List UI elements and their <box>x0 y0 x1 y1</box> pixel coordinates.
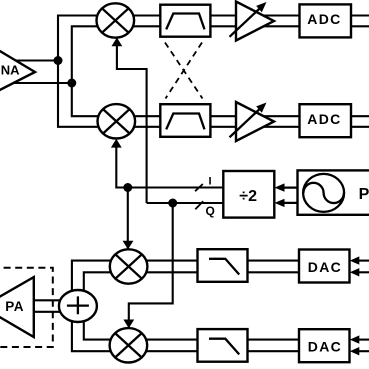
mixer M4 <box>110 328 148 362</box>
amplifier LNA (cut at left edge) <box>0 44 35 96</box>
wire PLL to divider lower <box>281 202 298 204</box>
amplifier A3 VGA <box>236 102 274 141</box>
svg-text:I: I <box>209 175 212 187</box>
filter F4 lowpass box <box>198 329 248 362</box>
arrowhead LO into mixer M4 <box>123 320 134 329</box>
dashed box around PA <box>0 268 53 347</box>
filter F3 lowpass symbol <box>209 259 239 275</box>
svg-text:P: P <box>359 186 369 203</box>
DAC U5 box <box>299 250 350 283</box>
node junction on LNA top output <box>54 56 63 65</box>
arrowhead into DAC U5 lower <box>350 268 360 276</box>
oscillator U4 sine curve <box>303 183 344 203</box>
divider U3 box <box>223 171 274 218</box>
slash mark on I line <box>195 184 203 191</box>
wire F1 to VGA A2 pair <box>210 14 245 16</box>
wire PA to summer pair <box>34 299 60 301</box>
amplifier A4 PA (cut at left edge) <box>0 277 34 337</box>
arrowhead VGA A2 <box>256 2 266 12</box>
wire LO Q line from divider <box>147 202 224 204</box>
mixer M4 cross <box>115 333 142 357</box>
svg-text:DAC: DAC <box>308 338 342 354</box>
wire F2 to VGA A3 pair <box>210 115 245 117</box>
wire RF branch B: vertical x71.8 to mixer M1 bottom-line and mixer M2 top-line <box>72 26 105 116</box>
oscillator U4 circle <box>303 174 344 212</box>
wire RF branch A: vertical x58 to mixer M1 top-line and mixer M2 bottom-line <box>58 16 105 127</box>
wire right edge into DAC U6 pair <box>354 339 369 341</box>
wire F4 to DAC U6 pair <box>248 339 301 341</box>
arrowhead into divider lower <box>275 199 285 207</box>
svg-text:DAC: DAC <box>308 259 342 275</box>
oscillator U4 PLL box (cut at right edge) <box>298 170 369 214</box>
amplifier A2 VGA <box>236 2 274 41</box>
wire F3 to DAC U5 pair <box>248 260 301 262</box>
svg-text:Q: Q <box>206 204 215 218</box>
wire LNA bottom output <box>10 82 72 84</box>
wire LNA top output <box>10 59 58 61</box>
amplifier A2 gain arrow line <box>230 9 260 37</box>
wire ADC U1 to right edge pair <box>351 14 369 16</box>
svg-text:÷2: ÷2 <box>239 188 257 205</box>
mixer M2 <box>98 104 136 138</box>
ADC U1 box <box>300 4 352 37</box>
wire VGA A2 to ADC U1 pair <box>252 14 300 16</box>
filter F1 bandpass symbol <box>166 14 204 30</box>
svg-text:ADC: ADC <box>307 11 341 27</box>
node junction on Q line <box>168 199 177 208</box>
arrowhead LO into mixer M2 <box>111 139 122 148</box>
dashed cross line A between F1 and F2 <box>165 43 203 99</box>
filter F1 bandpass box <box>160 5 210 37</box>
filter F2 bandpass symbol <box>166 114 204 130</box>
filter F3 lowpass box <box>198 249 248 282</box>
mixer M3 cross <box>115 254 142 278</box>
wire LO Q branch down to TX mixer M4 <box>129 203 173 334</box>
summer S1 plus sign <box>67 296 89 314</box>
arrowhead LO into mixer M1 <box>112 38 123 47</box>
wire LO I branch down to TX mixer M3 <box>127 188 129 257</box>
DAC U6 box <box>299 329 350 362</box>
wire M4 outputs to summer S1 bottom <box>72 320 112 352</box>
svg-text:NA: NA <box>1 63 20 78</box>
node junction on LNA bottom output <box>67 79 76 88</box>
mixer M3 <box>110 249 148 283</box>
wire M2 to F2 pair <box>116 115 162 117</box>
wire VGA A3 to ADC U2 pair <box>252 115 300 117</box>
svg-text:ADC: ADC <box>307 111 341 127</box>
wire right edge into DAC U5 pair <box>354 260 369 262</box>
mixer M2 cross <box>103 109 130 133</box>
node junction on I line <box>123 183 132 192</box>
mixer M1 <box>97 3 135 37</box>
arrowhead into DAC U6 upper <box>350 335 360 343</box>
arrowhead into DAC U5 upper <box>350 256 360 264</box>
wire M3 to F3 pair <box>128 260 199 262</box>
arrowhead into divider upper <box>275 183 285 191</box>
wire LO Q to mixer M1 arrow <box>117 44 147 203</box>
amplifier A3 gain arrow line <box>230 109 260 137</box>
wire LO I line from divider to mixer M2 arrow <box>116 145 223 188</box>
slash mark on Q line <box>195 201 203 209</box>
wire M3 outputs to summer S1 top <box>72 261 112 293</box>
wire ADC U2 to right edge pair <box>351 115 369 117</box>
svg-text:PA: PA <box>5 299 24 314</box>
summer S1 <box>59 290 97 322</box>
filter F2 bandpass box <box>160 104 210 137</box>
wire M4 to F4 pair <box>128 339 199 341</box>
ADC U2 box <box>300 104 352 137</box>
arrowhead VGA A3 <box>256 103 266 113</box>
filter F4 lowpass symbol <box>209 339 239 355</box>
arrowhead into DAC U6 lower <box>350 347 360 355</box>
wire M1 to F1 pair <box>116 14 162 16</box>
mixer M1 cross <box>102 8 129 32</box>
arrowhead LO into mixer M3 <box>123 241 134 250</box>
wire PLL to divider upper <box>281 186 298 188</box>
dashed cross line B between F1 and F2 <box>166 43 203 99</box>
